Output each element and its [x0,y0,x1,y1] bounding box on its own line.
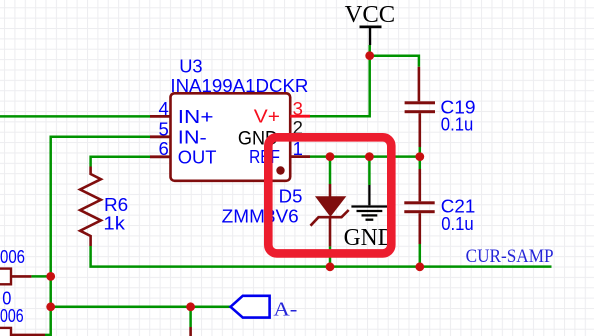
highlight rectangle [268,137,391,253]
junction GND [365,152,374,161]
svg-text:IN-: IN- [178,126,207,147]
port A- [231,296,270,318]
REF dot [276,166,284,174]
svg-text:1k: 1k [103,212,125,233]
wire pin6 OUT [91,157,150,167]
svg-text:V+: V+ [254,105,280,126]
wire R6 bottom to CUR-SAMP [91,246,552,267]
pin 3 stub highlighted red [290,115,310,118]
svg-text:U3: U3 [179,55,202,76]
pin 4 stub [150,115,171,118]
wire A- junction down [189,307,192,327]
ground symbol [351,185,387,220]
wire VCC to pin3 [310,45,370,116]
wire C19 bottom / C21 top [419,147,422,169]
junction left resistor [46,272,55,281]
resistor R6 [80,167,101,247]
svg-text:0.1u: 0.1u [441,114,474,135]
junction D5 bottom [326,262,335,271]
pin 5 stub [150,135,171,138]
capacitor C21 [404,169,434,244]
svg-text:5: 5 [159,118,169,139]
svg-text:IN+: IN+ [178,106,214,127]
wire bottom A- net [51,306,231,309]
capacitor C19 [405,67,435,147]
svg-text:6: 6 [159,138,169,159]
wire REF net [310,155,420,158]
pin 6 stub [150,155,171,158]
wire D5 bottom [329,246,332,266]
VCC power symbol [360,26,382,46]
pin 1 stub [290,155,310,158]
svg-text:A-: A- [273,299,297,321]
wire left resistor lead [31,275,50,278]
svg-text:OUT: OUT [178,146,217,167]
junction bottom wire mid [186,302,195,311]
junction VCC [365,51,374,60]
svg-text:CUR-SAMP: CUR-SAMP [466,247,554,267]
wire pin4 IN+ [0,115,150,118]
op-amp U3 INA199A1DCKR body [171,93,291,181]
svg-text:3: 3 [293,98,303,119]
junction bottom wire left [46,302,55,311]
svg-text:0.1u: 0.1u [441,213,474,234]
svg-text:D5: D5 [279,185,303,206]
resistor (box style, left edge cut) [0,269,11,285]
lead below A- junction [189,327,192,336]
wire GND stem green [368,157,371,185]
resistor (box style, bottom-left cut) [0,328,11,336]
svg-text:006: 006 [0,305,24,326]
svg-text:VCC: VCC [345,2,396,28]
zener diode D5 [311,184,349,246]
svg-text:INA199A1DCKR: INA199A1DCKR [170,75,308,96]
wire pin5 IN- [51,137,150,336]
svg-text:4: 4 [159,98,169,119]
svg-text:ZMM3V6: ZMM3V6 [222,205,299,226]
wire VCC to C19 [370,56,419,67]
junction C21 bottom [415,262,424,271]
junction D5 top [326,152,335,161]
junction C19/C21 [415,152,424,161]
wire D5 top [329,157,332,184]
wire C21 bottom [419,244,422,267]
svg-text:006: 006 [0,246,25,267]
